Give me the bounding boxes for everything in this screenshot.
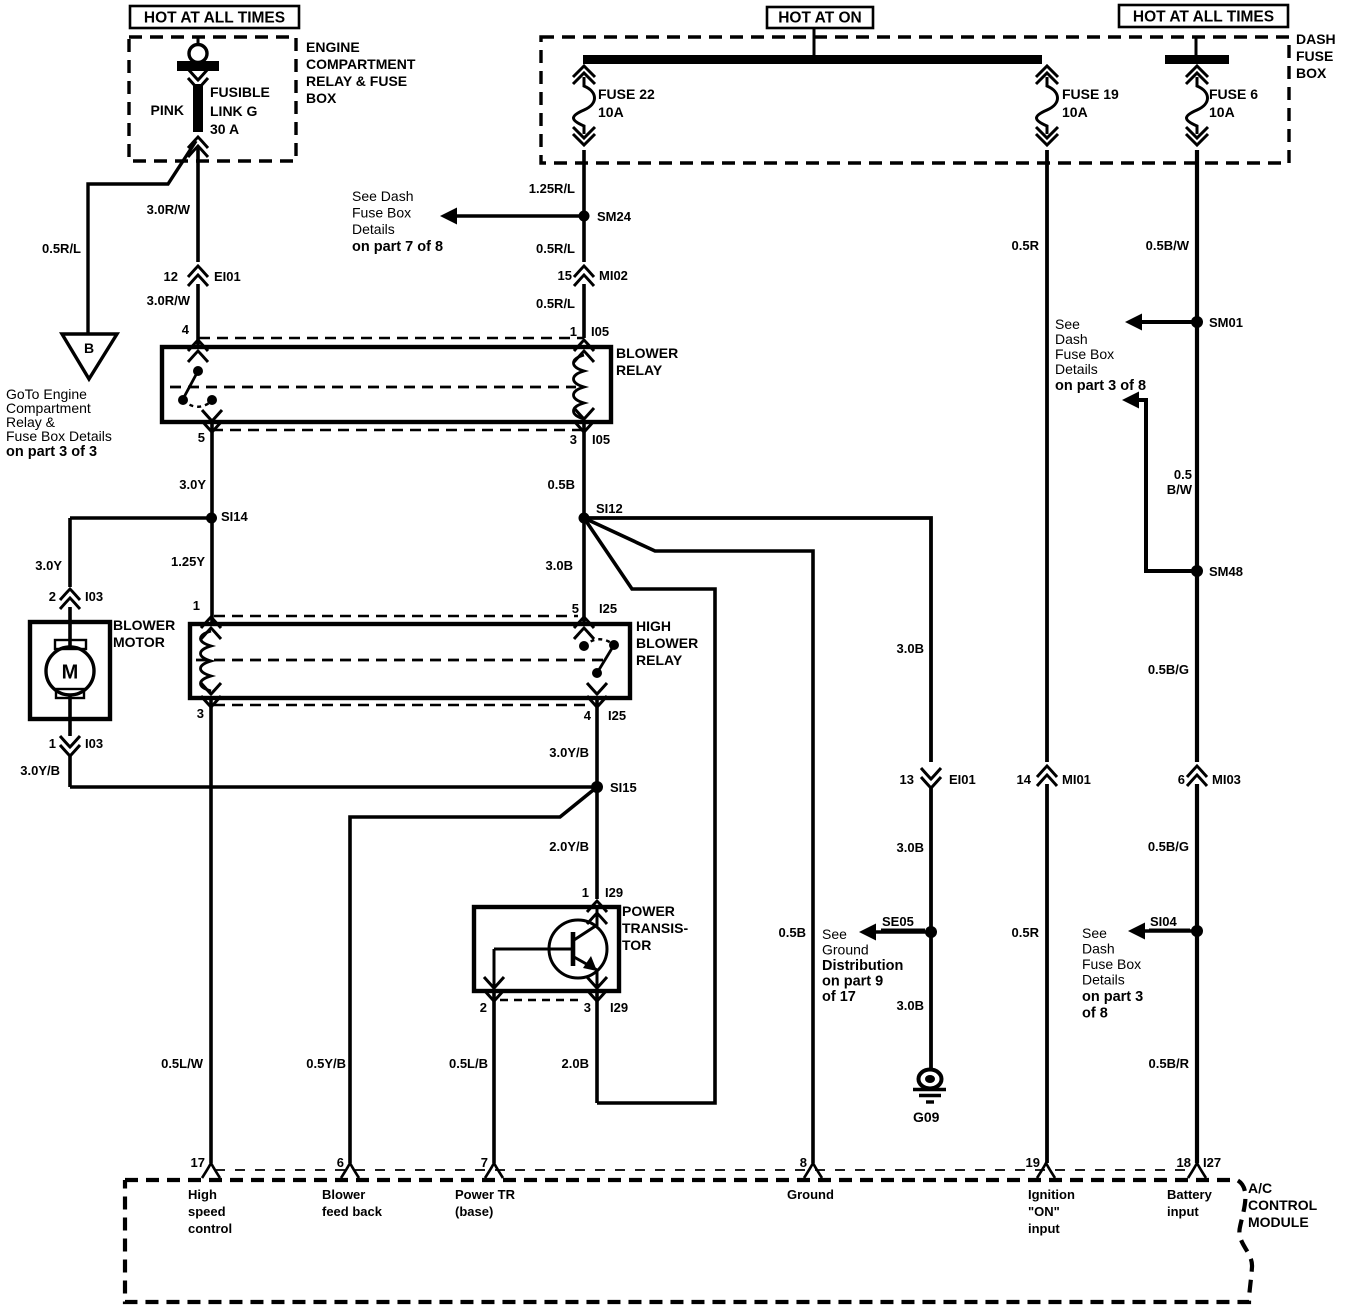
svg-text:1.25R/L: 1.25R/L — [529, 181, 575, 196]
svg-text:of 17: of 17 — [822, 989, 856, 1005]
svg-text:1.25Y: 1.25Y — [171, 554, 205, 569]
svg-text:4: 4 — [182, 322, 190, 337]
svg-text:3.0B: 3.0B — [897, 840, 924, 855]
svg-text:0.5R/L: 0.5R/L — [536, 296, 575, 311]
svg-text:B/W: B/W — [1167, 482, 1193, 497]
svg-text:TOR: TOR — [622, 937, 651, 953]
svg-text:feed back: feed back — [322, 1204, 383, 1219]
svg-text:18: 18 — [1177, 1155, 1191, 1170]
svg-text:10A: 10A — [1062, 104, 1088, 120]
svg-text:BOX: BOX — [1296, 65, 1327, 81]
svg-text:MI01: MI01 — [1062, 772, 1091, 787]
svg-text:RELAY & FUSE: RELAY & FUSE — [306, 73, 407, 89]
svg-text:1: 1 — [570, 324, 577, 339]
svg-text:input: input — [1028, 1221, 1060, 1236]
svg-text:See: See — [822, 926, 847, 942]
svg-text:3.0R/W: 3.0R/W — [147, 202, 191, 217]
svg-text:0.5R: 0.5R — [1012, 925, 1040, 940]
svg-text:EI01: EI01 — [214, 269, 241, 284]
svg-text:I03: I03 — [85, 589, 103, 604]
svg-text:"ON": "ON" — [1028, 1204, 1060, 1219]
svg-text:on part 3: on part 3 — [1082, 989, 1143, 1005]
svg-text:DASH: DASH — [1296, 31, 1336, 47]
svg-text:BOX: BOX — [306, 90, 337, 106]
svg-text:SM01: SM01 — [1209, 315, 1243, 330]
svg-text:0.5B: 0.5B — [779, 925, 806, 940]
svg-text:FUSE 19: FUSE 19 — [1062, 86, 1119, 102]
svg-text:of 8: of 8 — [1082, 1006, 1108, 1022]
svg-text:6: 6 — [1178, 772, 1185, 787]
svg-text:0.5L/B: 0.5L/B — [449, 1056, 488, 1071]
svg-text:SM48: SM48 — [1209, 564, 1243, 579]
svg-text:3.0R/W: 3.0R/W — [147, 293, 191, 308]
svg-text:RELAY: RELAY — [636, 652, 683, 668]
svg-text:3.0B: 3.0B — [897, 998, 924, 1013]
svg-text:Fuse Box Details: Fuse Box Details — [6, 428, 112, 444]
svg-text:3: 3 — [197, 706, 204, 721]
svg-text:5: 5 — [198, 430, 205, 445]
svg-text:Ignition: Ignition — [1028, 1187, 1075, 1202]
svg-text:on part 3 of 8: on part 3 of 8 — [1055, 378, 1146, 394]
svg-text:(base): (base) — [455, 1204, 493, 1219]
svg-text:0.5R/L: 0.5R/L — [42, 241, 81, 256]
svg-text:I29: I29 — [605, 885, 623, 900]
svg-text:19: 19 — [1026, 1155, 1040, 1170]
svg-text:MODULE: MODULE — [1248, 1214, 1309, 1230]
svg-text:See: See — [1082, 925, 1107, 941]
svg-text:3.0Y: 3.0Y — [179, 477, 206, 492]
svg-text:0.5B: 0.5B — [548, 477, 575, 492]
svg-text:3: 3 — [570, 432, 577, 447]
svg-text:speed: speed — [188, 1204, 226, 1219]
svg-text:1: 1 — [49, 736, 56, 751]
svg-text:Power TR: Power TR — [455, 1187, 516, 1202]
svg-text:2: 2 — [480, 1000, 487, 1015]
svg-text:SI04: SI04 — [1150, 914, 1178, 929]
svg-text:5: 5 — [572, 601, 579, 616]
svg-text:I05: I05 — [592, 432, 610, 447]
svg-text:Details: Details — [352, 221, 395, 237]
svg-text:FUSIBLE: FUSIBLE — [210, 84, 270, 100]
svg-text:Dash: Dash — [1055, 331, 1088, 347]
svg-text:Fuse Box: Fuse Box — [352, 205, 411, 221]
svg-text:Fuse Box: Fuse Box — [1055, 346, 1114, 362]
svg-text:I29: I29 — [610, 1000, 628, 1015]
svg-text:Ground: Ground — [787, 1187, 834, 1202]
svg-text:Dash: Dash — [1082, 941, 1115, 957]
svg-text:I27: I27 — [1203, 1155, 1221, 1170]
svg-text:on part 7 of 8: on part 7 of 8 — [352, 239, 443, 255]
svg-text:POWER: POWER — [622, 903, 675, 919]
svg-text:3: 3 — [584, 1000, 591, 1015]
svg-text:6: 6 — [337, 1155, 344, 1170]
svg-text:See: See — [1055, 316, 1080, 332]
svg-text:High: High — [188, 1187, 217, 1202]
svg-text:3.0B: 3.0B — [897, 641, 924, 656]
svg-text:15: 15 — [558, 268, 572, 283]
svg-text:0.5R/L: 0.5R/L — [536, 241, 575, 256]
svg-text:0.5B/G: 0.5B/G — [1148, 662, 1189, 677]
svg-text:3.0Y/B: 3.0Y/B — [20, 763, 60, 778]
svg-text:0.5Y/B: 0.5Y/B — [306, 1056, 346, 1071]
svg-text:EI01: EI01 — [949, 772, 976, 787]
svg-text:I25: I25 — [608, 708, 626, 723]
svg-text:BLOWER: BLOWER — [636, 635, 698, 651]
svg-text:7: 7 — [481, 1155, 488, 1170]
svg-text:FUSE 6: FUSE 6 — [1209, 86, 1258, 102]
svg-text:Details: Details — [1082, 972, 1125, 988]
svg-text:BLOWER: BLOWER — [616, 345, 678, 361]
svg-text:0.5L/W: 0.5L/W — [161, 1056, 204, 1071]
svg-text:SI15: SI15 — [610, 780, 637, 795]
svg-text:LINK G: LINK G — [210, 103, 258, 119]
svg-text:FUSE 22: FUSE 22 — [598, 86, 655, 102]
svg-text:Blower: Blower — [322, 1187, 365, 1202]
svg-text:1: 1 — [193, 598, 200, 613]
svg-text:SM24: SM24 — [597, 209, 632, 224]
svg-text:3.0B: 3.0B — [546, 558, 573, 573]
svg-text:3.0Y: 3.0Y — [35, 558, 62, 573]
svg-text:FUSE: FUSE — [1296, 48, 1333, 64]
svg-text:HOT AT ALL TIMES: HOT AT ALL TIMES — [144, 10, 285, 27]
svg-text:CONTROL: CONTROL — [1248, 1197, 1318, 1213]
svg-text:MI02: MI02 — [599, 268, 628, 283]
svg-text:10A: 10A — [1209, 104, 1235, 120]
svg-text:Ground: Ground — [822, 942, 869, 958]
svg-text:SI14: SI14 — [221, 509, 249, 524]
svg-text:See Dash: See Dash — [352, 188, 413, 204]
svg-text:0.5B/R: 0.5B/R — [1149, 1056, 1190, 1071]
svg-text:14: 14 — [1017, 772, 1032, 787]
svg-text:B: B — [84, 340, 94, 356]
svg-text:HOT AT ALL TIMES: HOT AT ALL TIMES — [1133, 9, 1274, 26]
svg-text:MI03: MI03 — [1212, 772, 1241, 787]
svg-text:SI12: SI12 — [596, 501, 623, 516]
svg-text:M: M — [62, 662, 79, 684]
svg-text:on part 3 of 3: on part 3 of 3 — [6, 444, 97, 460]
svg-text:MOTOR: MOTOR — [113, 634, 165, 650]
svg-text:on part 9: on part 9 — [822, 974, 883, 990]
svg-text:I03: I03 — [85, 736, 103, 751]
svg-text:0.5B/G: 0.5B/G — [1148, 839, 1189, 854]
svg-text:1: 1 — [582, 885, 589, 900]
svg-text:SE05: SE05 — [882, 914, 914, 929]
svg-text:8: 8 — [800, 1155, 807, 1170]
svg-text:G09: G09 — [913, 1109, 940, 1125]
svg-text:TRANSIS-: TRANSIS- — [622, 920, 688, 936]
svg-text:2.0Y/B: 2.0Y/B — [549, 839, 589, 854]
svg-text:0.5R: 0.5R — [1012, 238, 1040, 253]
svg-text:input: input — [1167, 1204, 1199, 1219]
svg-text:I05: I05 — [591, 324, 609, 339]
svg-text:30 A: 30 A — [210, 121, 239, 137]
svg-text:3.0Y/B: 3.0Y/B — [549, 745, 589, 760]
svg-text:COMPARTMENT: COMPARTMENT — [306, 56, 416, 72]
svg-text:Distribution: Distribution — [822, 958, 903, 974]
svg-text:I25: I25 — [599, 601, 617, 616]
svg-text:2.0B: 2.0B — [562, 1056, 589, 1071]
svg-text:Battery: Battery — [1167, 1187, 1213, 1202]
svg-text:0.5B/W: 0.5B/W — [1146, 238, 1190, 253]
svg-text:10A: 10A — [598, 104, 624, 120]
svg-text:0.5: 0.5 — [1174, 467, 1192, 482]
svg-text:PINK: PINK — [151, 102, 184, 118]
svg-text:control: control — [188, 1221, 232, 1236]
svg-text:BLOWER: BLOWER — [113, 617, 175, 633]
svg-text:HIGH: HIGH — [636, 618, 671, 634]
svg-text:2: 2 — [49, 589, 56, 604]
svg-text:13: 13 — [900, 772, 914, 787]
svg-text:A/C: A/C — [1248, 1180, 1272, 1196]
svg-text:RELAY: RELAY — [616, 362, 663, 378]
svg-text:4: 4 — [584, 708, 592, 723]
svg-text:HOT AT ON: HOT AT ON — [778, 10, 862, 27]
svg-text:Details: Details — [1055, 361, 1098, 377]
svg-text:12: 12 — [164, 269, 178, 284]
svg-text:ENGINE: ENGINE — [306, 39, 360, 55]
svg-text:17: 17 — [191, 1155, 205, 1170]
svg-text:Fuse Box: Fuse Box — [1082, 956, 1141, 972]
